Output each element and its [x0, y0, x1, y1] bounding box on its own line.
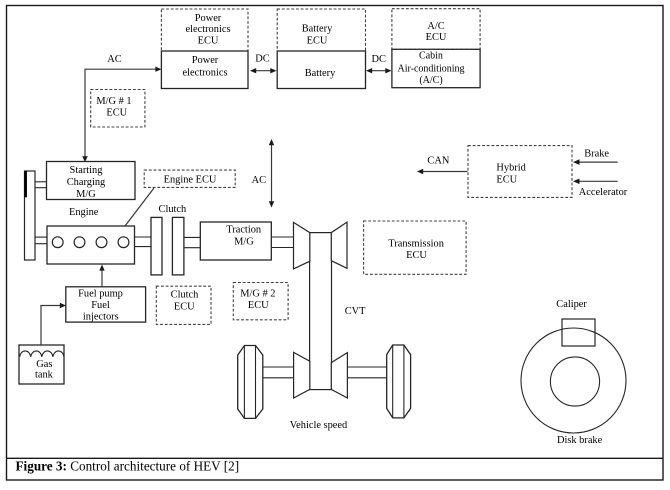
svg-text:Air-conditioning: Air-conditioning — [397, 63, 464, 74]
svg-text:Clutch: Clutch — [159, 204, 188, 215]
svg-text:M/G: M/G — [234, 236, 254, 247]
svg-text:DC: DC — [371, 54, 386, 65]
svg-text:Fuel pump: Fuel pump — [78, 289, 123, 300]
svg-text:electronics: electronics — [185, 24, 230, 35]
svg-text:Vehicle speed: Vehicle speed — [290, 420, 348, 431]
svg-text:Transmission: Transmission — [388, 239, 444, 250]
svg-text:(A/C): (A/C) — [419, 75, 442, 86]
svg-text:A/C: A/C — [427, 21, 444, 32]
svg-text:Charging: Charging — [67, 177, 105, 188]
svg-text:AC: AC — [107, 54, 122, 65]
svg-text:Battery: Battery — [302, 23, 333, 34]
svg-text:ECU: ECU — [248, 300, 269, 311]
svg-text:ECU: ECU — [496, 175, 517, 186]
svg-text:Power: Power — [195, 13, 222, 24]
svg-text:Disk brake: Disk brake — [557, 435, 603, 446]
svg-text:Battery: Battery — [305, 68, 336, 79]
svg-text:DC: DC — [255, 54, 270, 65]
svg-text:Figure 3: Control architecture: Figure 3: Control architecture of HEV [2… — [16, 459, 240, 474]
svg-text:CVT: CVT — [345, 306, 366, 317]
svg-text:M/G: M/G — [76, 189, 96, 200]
svg-text:Clutch: Clutch — [171, 290, 200, 301]
svg-text:Engine: Engine — [69, 207, 99, 218]
svg-text:Traction: Traction — [226, 225, 262, 236]
svg-text:ECU: ECU — [426, 32, 447, 43]
svg-text:M/G # 1: M/G # 1 — [96, 96, 131, 107]
svg-text:ECU: ECU — [174, 302, 195, 313]
svg-text:Fuel: Fuel — [91, 300, 110, 311]
svg-text:tank: tank — [35, 369, 54, 380]
svg-text:Cabin: Cabin — [419, 50, 443, 61]
svg-text:ECU: ECU — [307, 35, 328, 46]
svg-text:Starting: Starting — [70, 165, 103, 176]
svg-text:ECU: ECU — [406, 250, 427, 261]
svg-text:M/G # 2: M/G # 2 — [240, 289, 275, 300]
svg-text:Brake: Brake — [584, 149, 609, 160]
svg-text:Accelerator: Accelerator — [579, 187, 628, 198]
svg-text:Hybrid: Hybrid — [496, 162, 526, 173]
svg-text:AC: AC — [252, 175, 267, 186]
svg-text:ECU: ECU — [198, 36, 219, 47]
svg-text:electronics: electronics — [182, 67, 227, 78]
svg-text:Engine ECU: Engine ECU — [164, 174, 217, 185]
svg-text:ECU: ECU — [106, 108, 127, 119]
svg-text:injectors: injectors — [83, 312, 119, 323]
svg-text:Power: Power — [192, 55, 219, 66]
svg-text:Caliper: Caliper — [556, 299, 587, 310]
svg-text:CAN: CAN — [427, 156, 449, 167]
